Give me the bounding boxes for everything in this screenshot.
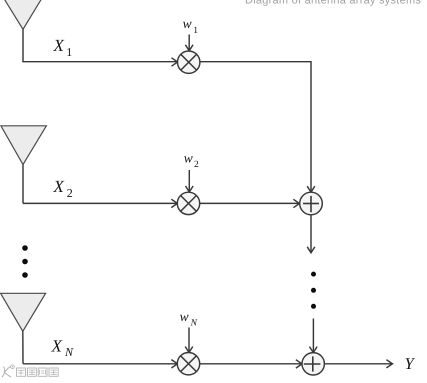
node w2 label [184, 150, 199, 170]
arrowhead into M3 left [171, 360, 177, 368]
svg-text:N: N [64, 345, 74, 359]
arrowhead into S2 top [310, 347, 318, 353]
antenna A1 [0, 0, 48, 29]
svg-text:X: X [51, 337, 63, 356]
wire: M3 output into S2 [200, 363, 302, 365]
wire: S2 output to Y [324, 363, 392, 365]
arrowhead into M2 top [186, 186, 194, 192]
node X1 label [53, 36, 73, 59]
wire: M1 output right then down to S1 [200, 62, 311, 192]
multiplier M2 [177, 192, 199, 214]
svg-text:w: w [180, 309, 189, 324]
summer S2 [302, 353, 324, 375]
multiplier M1 [178, 51, 200, 73]
multiplier M3 [177, 353, 199, 375]
antenna A3 [1, 293, 46, 331]
arrowhead into M2 left [171, 199, 177, 207]
arrowhead into M1 left [172, 58, 178, 66]
svg-text:2: 2 [194, 160, 199, 170]
arrowhead into S1 top [307, 186, 315, 192]
arrowhead output Y [386, 360, 392, 368]
wire: X1 horizontal into M1 [23, 60, 177, 63]
antenna A2 [1, 126, 47, 165]
svg-text:1: 1 [193, 26, 198, 36]
node XN label [51, 337, 75, 360]
wire: antenna A3 feed down [22, 331, 24, 364]
wire: M2 output into S1 [200, 202, 300, 204]
node X2 label [53, 177, 73, 200]
svg-text:N: N [190, 318, 198, 328]
node Y label [405, 354, 416, 373]
wire: w2 down into M2 [188, 170, 190, 192]
wire: S1 output down [310, 215, 312, 253]
left ellipsis dots [22, 245, 28, 278]
svg-text:1: 1 [66, 45, 72, 59]
node w1 label [183, 16, 199, 36]
arrowhead S1 down output [307, 247, 315, 253]
wire: wN down into M3 [188, 328, 190, 353]
wire: antenna A2 feed down [22, 165, 24, 204]
svg-text:X: X [53, 177, 65, 196]
summer S1 [300, 192, 323, 215]
svg-text:Diagram of antenna array syste: Diagram of antenna array systems [245, 0, 421, 7]
wire: right column down into S2 [312, 319, 314, 353]
node wN label [180, 309, 198, 328]
svg-text:w: w [184, 150, 193, 165]
arrowhead into S2 left [296, 360, 302, 368]
wire: XN horizontal into M3 [23, 363, 177, 365]
wire: w1 down into M1 [188, 35, 190, 51]
right ellipsis dots [311, 272, 316, 309]
arrowhead into S1 left [293, 199, 299, 207]
svg-text:2: 2 [67, 186, 73, 200]
arrowhead into M3 top [185, 347, 193, 353]
watermark logo bottom-left [2, 365, 58, 377]
svg-text:Y: Y [405, 354, 416, 373]
svg-text:w: w [183, 16, 192, 31]
arrowhead into M1 top [185, 45, 193, 51]
wire: X2 horizontal into M2 [23, 202, 177, 204]
clipped caption text at top [245, 0, 421, 7]
wire: antenna A1 feed down [22, 29, 24, 61]
svg-text:X: X [53, 36, 65, 55]
